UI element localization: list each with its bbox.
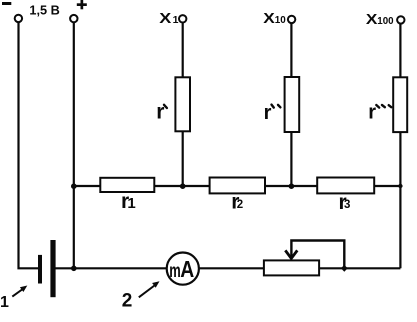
svg-text:1: 1 <box>127 195 135 212</box>
svg-text:1: 1 <box>173 14 179 26</box>
svg-text:1: 1 <box>0 294 9 311</box>
svg-text:m: m <box>169 261 181 282</box>
svg-text:A: A <box>180 256 194 282</box>
svg-text:r: r <box>264 102 272 124</box>
svg-text:3: 3 <box>344 199 350 211</box>
svg-text:r: r <box>368 102 376 124</box>
svg-text:X: X <box>263 11 275 27</box>
svg-text:X: X <box>366 12 378 28</box>
svg-text:100: 100 <box>377 15 393 27</box>
svg-text:2: 2 <box>237 199 243 211</box>
svg-text:10: 10 <box>275 14 286 26</box>
svg-text:1,5 В: 1,5 В <box>29 4 59 18</box>
svg-text:X: X <box>159 11 171 27</box>
svg-text:r: r <box>156 100 164 123</box>
svg-text:2: 2 <box>122 290 133 311</box>
